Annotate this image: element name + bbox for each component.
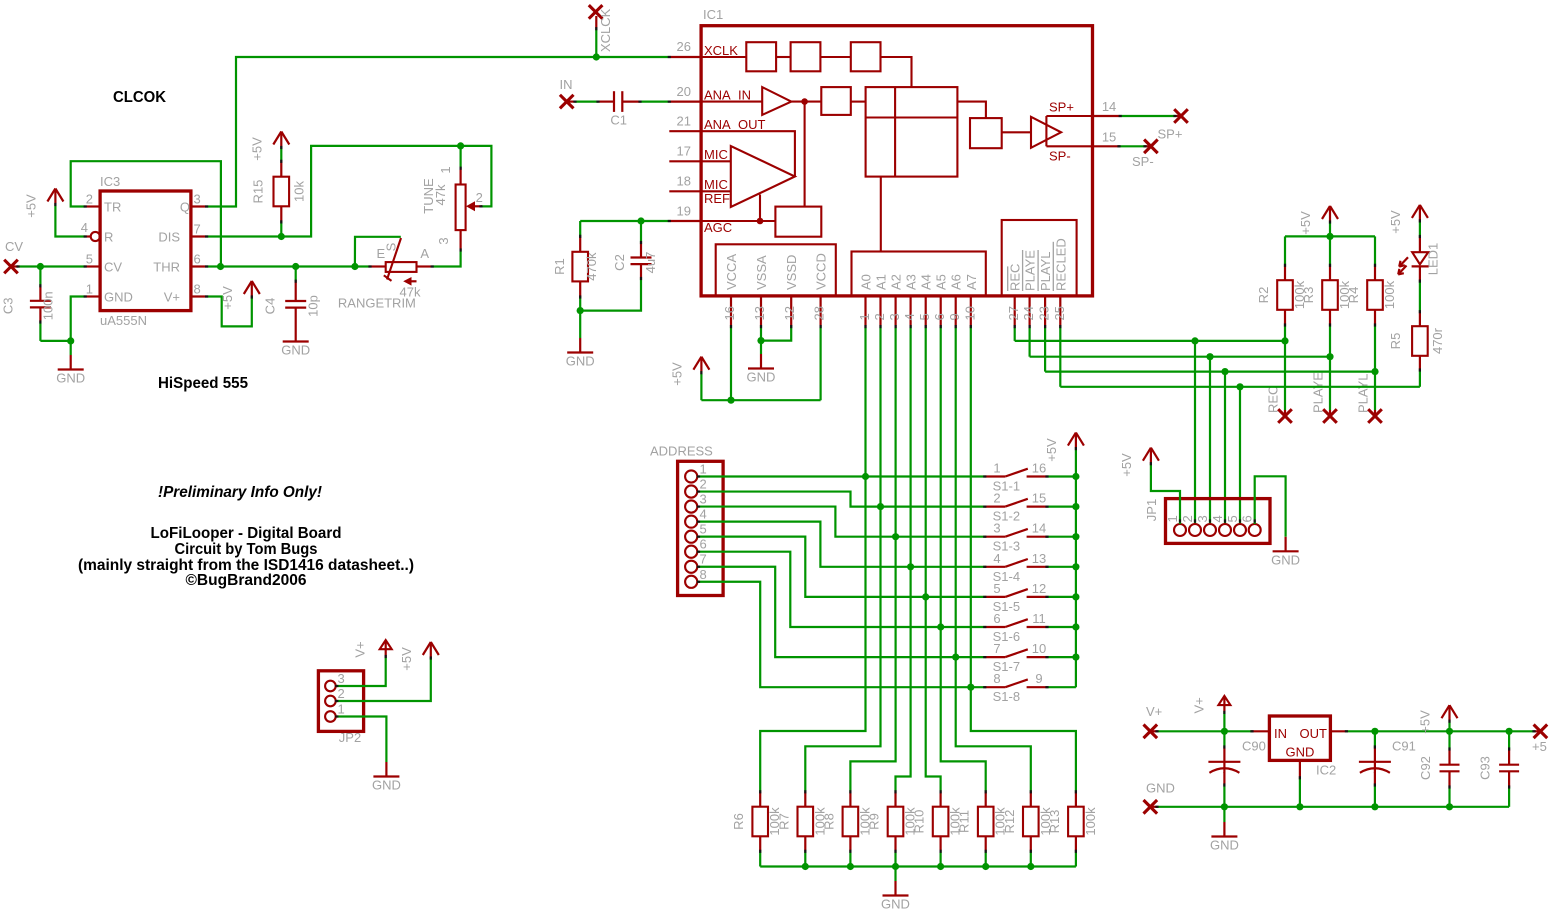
svg-text:5: 5 — [1225, 515, 1240, 522]
svg-text:CV: CV — [5, 239, 23, 254]
node +5 cross — [1534, 730, 1540, 732]
svg-text:IC2: IC2 — [1316, 763, 1336, 778]
capacitor C3 100n — [39, 267, 41, 286]
node V+ C90 junction — [1221, 728, 1228, 735]
svg-text:CLCOK: CLCOK — [113, 89, 167, 106]
svg-text:4: 4 — [902, 313, 917, 320]
IC1 pin 20 ANA_IN — [669, 100, 701, 102]
svg-text:27: 27 — [1006, 306, 1021, 320]
IC1 internal memory block — [866, 87, 958, 177]
svg-text:15: 15 — [1102, 129, 1116, 144]
svg-text:6: 6 — [993, 611, 1000, 626]
wire ADDRESS pin8 to S1-8 — [697, 582, 985, 687]
node internal AGC junction — [757, 218, 764, 225]
IC1 pin 23 — [1044, 296, 1046, 327]
svg-text:IC1: IC1 — [703, 7, 723, 22]
svg-text:5: 5 — [917, 313, 932, 320]
svg-text:3: 3 — [700, 492, 707, 507]
node VSS junction — [757, 337, 764, 344]
svg-text:V+: V+ — [353, 641, 368, 657]
wire ADDRESS pin5 to S1-5 — [697, 537, 985, 597]
wire A2 vertical to R8 — [850, 327, 895, 792]
svg-text:OUT: OUT — [1300, 726, 1328, 741]
svg-text:GND: GND — [372, 778, 401, 793]
node PLAYL cross — [1374, 410, 1376, 416]
ADDRESS pin 6 — [685, 546, 697, 558]
svg-text:2: 2 — [993, 491, 1000, 506]
svg-text:5: 5 — [86, 252, 93, 267]
svg-text:S1-8: S1-8 — [993, 689, 1020, 704]
LED LED1 — [1419, 221, 1421, 237]
svg-text:14: 14 — [1032, 521, 1046, 536]
JP1 pin 4 — [1219, 524, 1231, 536]
ground symbol under IC3 — [70, 355, 72, 370]
svg-text:©BugBrand2006: ©BugBrand2006 — [186, 572, 307, 589]
svg-text:8: 8 — [700, 567, 707, 582]
svg-text:VCCA: VCCA — [724, 254, 739, 290]
node rail junction — [847, 863, 854, 870]
IC1 pin 9 A6 — [955, 296, 957, 327]
TUNE wiper arrow pin 2 — [474, 205, 482, 207]
resistor R10 100k — [939, 792, 941, 807]
wire R2 to REC cross — [1284, 325, 1286, 410]
node C91 junction top — [1371, 728, 1378, 735]
IC1 pin 24 — [1028, 296, 1030, 327]
ADDRESS pin 7 — [685, 561, 697, 573]
svg-text:GND: GND — [747, 370, 776, 385]
capacitor C91 (polarized) — [1374, 731, 1376, 747]
wire JP1 pin1 to +5V — [1151, 464, 1180, 524]
wire ADDRESS pin7 to S1-7 — [697, 567, 985, 657]
node C92 junction top — [1446, 728, 1453, 735]
svg-text:MIC: MIC — [704, 147, 728, 162]
JP2 pin 2 — [325, 696, 336, 707]
svg-text:REC: REC — [1266, 386, 1281, 413]
svg-text:12: 12 — [782, 306, 797, 320]
svg-text:3: 3 — [194, 192, 201, 207]
IC1 pin 25 — [1059, 296, 1061, 327]
svg-text:10p: 10p — [306, 295, 321, 317]
svg-text:+5V: +5V — [669, 362, 684, 386]
svg-text:12: 12 — [1032, 581, 1046, 596]
svg-text:4u7: 4u7 — [643, 252, 658, 274]
wire VSSA/VSSD ground net — [760, 327, 762, 341]
svg-text:2: 2 — [86, 192, 93, 207]
wire R pin to +5V — [55, 205, 85, 237]
V+ supply symbol (IC2) — [1223, 696, 1225, 713]
node GND IC2 junction — [1296, 803, 1303, 810]
svg-text:RANGETRIM: RANGETRIM — [338, 296, 416, 311]
svg-text:15: 15 — [1032, 491, 1046, 506]
IC1 pin 19 AGC — [669, 220, 701, 222]
node rail junction — [1326, 233, 1333, 240]
resistor R13 100k — [1075, 792, 1077, 807]
svg-text:7: 7 — [993, 641, 1000, 656]
wire A7 vertical to R13 — [971, 327, 1076, 792]
svg-text:THR: THR — [153, 260, 180, 275]
svg-text:3: 3 — [436, 237, 451, 244]
node rail junction — [1027, 863, 1034, 870]
wire GND under C90 — [1223, 807, 1225, 822]
node REC cross — [1284, 410, 1286, 416]
node DIS-R15 junction — [278, 233, 285, 240]
svg-text:1: 1 — [438, 166, 453, 173]
+5V supply symbol (LED1) — [1419, 205, 1421, 221]
svg-text:+5V: +5V — [1298, 211, 1313, 235]
capacitor C4 10p — [295, 267, 297, 282]
svg-text:100k: 100k — [1382, 280, 1397, 309]
svg-text:GND: GND — [881, 897, 910, 912]
IC1 pin 2 A1 — [879, 296, 881, 327]
IC1 pin 10 A7 — [970, 296, 972, 327]
svg-text:TR: TR — [104, 200, 121, 215]
svg-text:R7: R7 — [776, 813, 791, 830]
svg-text:VSSA: VSSA — [754, 255, 769, 290]
wire VCCA/VCCD +5V net — [730, 327, 732, 401]
svg-text:470r: 470r — [1430, 327, 1445, 354]
svg-text:18: 18 — [677, 174, 691, 189]
+5V supply symbol (R3) — [1329, 206, 1331, 222]
svg-text:8: 8 — [194, 282, 201, 297]
node rail junction — [937, 863, 944, 870]
JP1 pin 3 — [1204, 524, 1216, 536]
node THR-C4 junction — [292, 263, 299, 270]
wire rail to ground — [894, 867, 896, 882]
node S1-6 junction — [937, 623, 944, 630]
node PLAYL-JP1 junction — [1221, 368, 1228, 375]
svg-text:VCCD: VCCD — [814, 253, 829, 290]
wire A1 vertical to R7 — [805, 327, 880, 792]
svg-text:XCLK: XCLK — [704, 43, 738, 58]
node PLAYE-JP1 junction — [1206, 353, 1213, 360]
svg-text:2: 2 — [1180, 515, 1195, 522]
svg-text:6: 6 — [1240, 515, 1255, 522]
node C93 junction top — [1506, 728, 1513, 735]
svg-text:13: 13 — [1032, 551, 1046, 566]
svg-text:4: 4 — [700, 507, 707, 522]
wire internal address bus — [880, 177, 882, 252]
wire A3 vertical to R9 — [896, 327, 911, 792]
wire XCLCK stub up — [595, 29, 597, 57]
ground symbol under resistor network — [894, 881, 896, 896]
IC1 internal ANA_IN amplifier — [701, 101, 762, 103]
voltage regulator IC2 — [1252, 730, 1269, 732]
wire R3 to PLAYE cross — [1329, 325, 1331, 410]
wire A6 vertical to R12 — [956, 327, 1031, 792]
resistor R4 100k — [1374, 236, 1376, 265]
svg-text:A1: A1 — [874, 274, 889, 290]
wire IN to C1 — [575, 100, 598, 102]
ground symbol under R1 — [579, 338, 581, 353]
wire internal AGC feed — [804, 102, 806, 207]
+5V supply symbol (pin V+) — [251, 281, 253, 297]
node switch rail junction — [1072, 654, 1079, 661]
svg-text:GND: GND — [56, 371, 85, 386]
svg-text:PLAYE: PLAYE — [1311, 372, 1326, 413]
svg-text:4: 4 — [81, 220, 88, 235]
+5V supply symbol (JP2) — [430, 642, 432, 658]
wire ADDRESS pin1 to S1-1 — [697, 475, 985, 477]
capacitor C93 — [1508, 731, 1510, 749]
node rail junction — [802, 863, 809, 870]
wire JP1 pin6 to GND — [1255, 476, 1286, 537]
svg-text:GND: GND — [566, 354, 595, 369]
svg-text:JP2: JP2 — [339, 730, 361, 745]
IC1 pin 3 A2 — [894, 296, 896, 327]
IC3 pin 7 DIS — [191, 235, 207, 237]
svg-text:REC: REC — [1008, 264, 1023, 291]
svg-text:100k: 100k — [1083, 807, 1098, 836]
IC3 pin 6 THR — [191, 265, 207, 267]
connector JP2 — [318, 671, 363, 732]
svg-text:LoFiLooper - Digital Board: LoFiLooper - Digital Board — [151, 525, 342, 542]
wire TR to THR net — [71, 161, 221, 266]
capacitor C2 4u7 — [640, 221, 642, 243]
svg-text:+5V: +5V — [23, 194, 38, 218]
svg-text:MIC: MIC — [704, 177, 728, 192]
svg-text:R2: R2 — [1256, 287, 1271, 304]
wire JP2 pin3 to V+ — [336, 657, 386, 687]
svg-text:6: 6 — [194, 252, 201, 267]
svg-text:VSSD: VSSD — [784, 255, 799, 290]
wire C3 to GND pin junction — [40, 340, 70, 342]
svg-text:A: A — [420, 246, 429, 261]
wire SP+ net — [1120, 115, 1175, 117]
svg-text:R6: R6 — [731, 813, 746, 830]
resistor R6 100k — [759, 792, 761, 807]
ADDRESS pin 8 — [685, 576, 697, 588]
ground symbol under C4 — [295, 327, 297, 342]
svg-text:10k: 10k — [291, 181, 306, 202]
svg-text:23: 23 — [1037, 306, 1052, 320]
switch S1-4 — [985, 566, 1006, 568]
IC3 pin 3 Q — [191, 205, 207, 207]
svg-text:JP1: JP1 — [1144, 499, 1159, 521]
svg-text:1: 1 — [993, 461, 1000, 476]
svg-text:470k: 470k — [584, 252, 599, 281]
IC1 REC/PLAYE/PLAYL/RECLED box — [1002, 220, 1077, 296]
node internal ANA_IN junction — [801, 98, 808, 105]
node V+ cross — [1144, 725, 1158, 739]
wire SP- net — [1119, 145, 1145, 147]
wire A5 vertical to R11 — [941, 327, 986, 792]
svg-text:9: 9 — [1035, 671, 1042, 686]
IC3 pin 8 V+ — [191, 295, 207, 297]
node XCLCK external cross — [589, 5, 603, 19]
node S1-4 junction — [907, 563, 914, 570]
node PLAYL-R4 junction — [1371, 368, 1378, 375]
resistor R7 100k — [804, 792, 806, 807]
wire DIS net to trimmer wiper — [207, 146, 492, 237]
wire THR row — [207, 265, 370, 267]
wire C1 to pin 20 — [640, 100, 669, 102]
wire JP1 pin2 drop — [1194, 341, 1196, 524]
svg-text:17: 17 — [677, 144, 691, 159]
svg-text:1: 1 — [857, 313, 872, 320]
svg-text:IC3: IC3 — [100, 174, 120, 189]
capacitor C90 (polarized) — [1223, 731, 1225, 747]
svg-text:A4: A4 — [919, 274, 934, 290]
svg-text:S: S — [384, 242, 399, 251]
svg-text:1: 1 — [700, 462, 707, 477]
ADDRESS pin 5 — [685, 531, 697, 543]
wire ADDRESS pin4 to S1-4 — [697, 522, 985, 567]
svg-text:4: 4 — [1210, 515, 1225, 522]
svg-text:5: 5 — [700, 522, 707, 537]
node CV-C3 junction — [37, 263, 44, 270]
wire JP1 pin4 drop — [1224, 372, 1226, 524]
node S1-1 junction — [862, 473, 869, 480]
svg-text:3: 3 — [993, 521, 1000, 536]
wire internal ANA_OUT — [701, 131, 795, 176]
svg-text:Q: Q — [180, 200, 190, 215]
IC1 pin 12 VSSD — [790, 296, 792, 327]
JP1 pin 6 — [1249, 524, 1261, 536]
svg-text:CV: CV — [104, 260, 122, 275]
IC1 pin 18 MIC REF — [669, 190, 701, 192]
wire +5V rail of switches — [1075, 449, 1077, 688]
svg-text:R4: R4 — [1346, 287, 1361, 304]
node switch rail junction — [1072, 473, 1079, 480]
svg-text:PLAYL: PLAYL — [1356, 373, 1371, 413]
+5V supply symbol (R15) — [280, 132, 282, 148]
wire JP1 pin3 drop — [1209, 357, 1211, 524]
svg-text:2: 2 — [872, 313, 887, 320]
wire ADDRESS pin3 to S1-3 — [697, 507, 985, 537]
svg-text:2: 2 — [338, 686, 345, 701]
svg-text:+5V: +5V — [1044, 438, 1059, 462]
svg-text:A7: A7 — [964, 274, 979, 290]
wire +5V rail right — [1346, 730, 1534, 732]
switch S1-1 — [985, 475, 1006, 477]
IC1 pin 13 VSSA — [760, 296, 762, 327]
resistor R11 100k — [985, 792, 987, 807]
svg-text:2: 2 — [700, 477, 707, 492]
node S1-8 junction — [967, 684, 974, 691]
IC1 pin 16 VCCA — [730, 296, 732, 327]
svg-text:16: 16 — [1032, 461, 1046, 476]
capacitor C1 — [598, 100, 614, 102]
switch S1-3 — [985, 536, 1006, 538]
+5V supply symbol (IC2 out) — [1448, 705, 1450, 721]
node THR-TR junction — [217, 263, 224, 270]
ADDRESS pin 2 — [685, 485, 697, 497]
svg-text:19: 19 — [677, 204, 691, 219]
svg-text:GND: GND — [1271, 552, 1300, 567]
svg-text:IN: IN — [560, 77, 573, 92]
svg-text:9: 9 — [947, 313, 962, 320]
svg-text:SP-: SP- — [1049, 148, 1071, 163]
svg-text:R9: R9 — [867, 813, 882, 830]
JP2 pin 1 — [325, 711, 336, 722]
svg-text:ADDRESS: ADDRESS — [650, 444, 713, 459]
wire Q to XCLK pin 26 — [207, 57, 670, 207]
svg-text:8: 8 — [993, 671, 1000, 686]
IC1 pin 21 ANA_OUT — [669, 130, 701, 132]
node R1-C2 junction — [577, 307, 584, 314]
svg-text:C93: C93 — [1477, 756, 1492, 780]
svg-text:A2: A2 — [889, 274, 904, 290]
svg-text:SP+: SP+ — [1049, 99, 1074, 114]
svg-text:+5V: +5V — [1388, 210, 1403, 234]
wire A4 vertical to R10 — [926, 327, 941, 792]
wire JP2 pin2 to +5V — [336, 658, 431, 701]
node IN external cross — [560, 95, 574, 109]
IC1 internal output path — [957, 102, 986, 119]
wire V+ pin to +5V — [207, 297, 252, 327]
svg-text:DIS: DIS — [158, 230, 180, 245]
node DIS-TUNE junction — [457, 142, 464, 149]
IC1 pin 14 SP+ — [1093, 115, 1121, 117]
wire +5V rail above R2-R4 — [1285, 235, 1375, 237]
svg-text:R15: R15 — [250, 180, 265, 204]
svg-text:C91: C91 — [1392, 739, 1416, 754]
svg-text:V+: V+ — [1191, 697, 1206, 713]
wire JP2 pin1 to GND — [336, 717, 386, 763]
svg-text:C2: C2 — [612, 254, 627, 271]
wire A0 vertical to R6 — [760, 327, 865, 792]
svg-text:R13: R13 — [1047, 810, 1062, 834]
node S1-3 junction — [892, 533, 899, 540]
svg-text:26: 26 — [677, 39, 691, 54]
node S1-7 junction — [952, 654, 959, 661]
node AGC-C2 junction — [637, 217, 644, 224]
connector JP1 — [1166, 499, 1271, 544]
potentiometer TUNE 47k — [460, 146, 462, 168]
wire resistor bottom rail — [760, 865, 1076, 867]
node +5V junction — [727, 397, 734, 404]
svg-text:ANA_OUT: ANA_OUT — [704, 117, 765, 132]
svg-text:IN: IN — [1274, 726, 1287, 741]
svg-text:R10: R10 — [912, 810, 927, 834]
IC1 pin 6 A5 — [940, 296, 942, 327]
svg-text:1: 1 — [338, 702, 345, 717]
svg-text:25: 25 — [1052, 306, 1067, 320]
svg-text:LED1: LED1 — [1426, 243, 1441, 276]
node SP- cross — [1145, 145, 1151, 147]
node switch rail junction — [1072, 593, 1079, 600]
wire CV net — [17, 265, 86, 267]
svg-text:6: 6 — [700, 537, 707, 552]
IC1 pin 1 A0 — [864, 296, 866, 327]
LED1 light arrows — [1399, 257, 1408, 266]
resistor R9 100k — [894, 792, 896, 807]
resistor R1 470k — [579, 221, 581, 236]
node THR-trimmer junction — [351, 263, 358, 270]
svg-text:1: 1 — [1165, 515, 1180, 522]
V+ supply symbol (JP2) — [385, 640, 387, 657]
svg-text:47k: 47k — [433, 184, 448, 205]
RANGETRIM adjust arrow — [409, 280, 417, 282]
svg-text:24: 24 — [1021, 306, 1036, 320]
resistor R5 470r — [1419, 281, 1421, 312]
resistor R15 10k — [280, 148, 282, 162]
IC1 internal oscillator squares — [701, 56, 746, 58]
svg-text:R3: R3 — [1301, 287, 1316, 304]
svg-text:20: 20 — [677, 84, 691, 99]
wire GND pin 1 net — [71, 297, 86, 341]
IC3 pin 5 CV — [85, 265, 100, 267]
node switch rail junction — [1072, 503, 1079, 510]
svg-text:GND: GND — [1286, 745, 1315, 760]
svg-text:3: 3 — [1195, 515, 1210, 522]
svg-text:10: 10 — [1032, 641, 1046, 656]
IC1 pin 27 — [1014, 296, 1016, 327]
node PLAYE cross — [1329, 410, 1331, 416]
wire ground rail — [1157, 806, 1509, 808]
svg-text:Circuit by Tom Bugs: Circuit by Tom Bugs — [175, 541, 318, 558]
RANGETRIM S pin wire — [355, 237, 401, 267]
